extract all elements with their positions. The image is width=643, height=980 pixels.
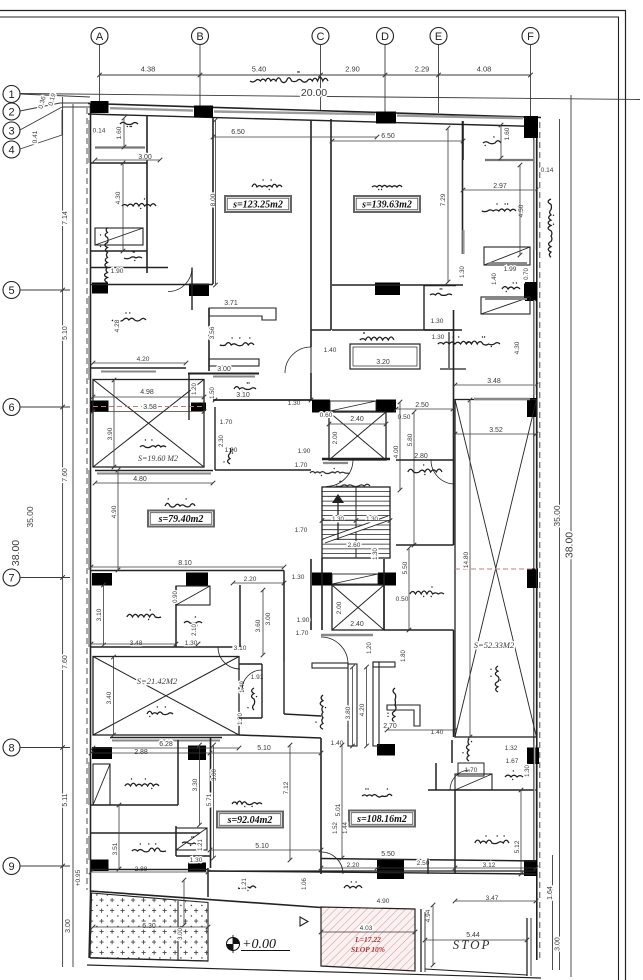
sill LW4 <box>110 737 222 739</box>
area S=21.42 <box>137 676 178 686</box>
wc wall h mid2 <box>239 717 262 719</box>
svg-text:S=21.42M2: S=21.42M2 <box>137 676 178 686</box>
svg-text:5.01: 5.01 <box>335 803 342 816</box>
grid bubble 5 <box>3 282 20 299</box>
dim 1.30 BR <box>525 765 531 777</box>
svg-text:1.70: 1.70 <box>296 630 309 637</box>
window sill left wall <box>88 470 90 570</box>
grid bubble C <box>312 28 329 45</box>
svg-text:5.50: 5.50 <box>381 851 395 858</box>
column C6 <box>189 284 209 297</box>
terrace top wall inner <box>208 870 536 872</box>
svg-text:1.20: 1.20 <box>192 383 198 395</box>
kitchen counter K2 inner <box>353 347 417 366</box>
window sill right wall <box>534 300 536 395</box>
dim 5.01 <box>335 803 342 816</box>
window sill left wall <box>88 590 90 647</box>
svg-text:E: E <box>435 31 442 43</box>
svg-text:1.60: 1.60 <box>504 127 511 140</box>
dim 5.44 <box>466 932 480 939</box>
dim 1.44 <box>343 822 349 834</box>
page frame right inner <box>618 17 620 980</box>
svg-text:2.40: 2.40 <box>350 621 364 628</box>
wardrobe BL <box>93 764 110 805</box>
column C25 <box>377 860 404 879</box>
dim 3.00 TL <box>138 154 152 161</box>
svg-text:2.88: 2.88 <box>134 749 148 756</box>
axis dashed red LW1 <box>93 406 204 408</box>
dim 3.56 <box>209 326 216 339</box>
svg-text:S=52.33M2: S=52.33M2 <box>474 640 515 650</box>
window sill top band <box>214 112 375 115</box>
label 4.38 <box>141 65 156 74</box>
serwis mid2 <box>247 688 257 710</box>
svg-text:1.44: 1.44 <box>343 822 349 834</box>
svg-text:7.60: 7.60 <box>62 655 69 669</box>
column C20 <box>188 746 206 761</box>
page frame right outer <box>625 11 627 980</box>
bedroom ML <box>127 609 161 620</box>
dim 0.90 <box>173 591 179 603</box>
hammam BR <box>505 770 523 780</box>
dim 3.00 K1 <box>217 366 231 373</box>
svg-text:4.94: 4.94 <box>425 909 432 922</box>
column C18 <box>527 569 538 589</box>
svg-text:1.30: 1.30 <box>525 765 531 777</box>
hammam TL <box>124 251 142 261</box>
dim 4.94 <box>425 909 432 922</box>
tub edge TR <box>489 262 527 264</box>
left wall lower slant <box>89 892 91 958</box>
wall below stairs L <box>310 559 312 630</box>
dim line 4.00 <box>398 400 403 493</box>
dim 1.30 stair b <box>366 517 378 523</box>
svg-text:1.30: 1.30 <box>190 857 203 864</box>
door TL <box>168 268 192 292</box>
grid line 438.5 <box>438 45 440 114</box>
svg-text:L=17.22: L=17.22 <box>354 935 381 944</box>
corridor wall K1 <box>188 373 259 375</box>
noorgir LW5 <box>490 666 501 692</box>
dim 2.40 elev2 <box>350 621 364 628</box>
svg-text:s=123.25m2: s=123.25m2 <box>232 200 283 211</box>
dim 7.29 <box>440 193 447 206</box>
street line 20.00 <box>20 94 640 100</box>
dim 0.41 <box>32 130 39 143</box>
svg-text:0.50: 0.50 <box>396 596 409 603</box>
svg-text:A: A <box>96 31 104 43</box>
left dim chain inner <box>72 104 74 967</box>
dim 1.70 hall <box>220 419 233 426</box>
svg-text:1.64: 1.64 <box>547 886 554 900</box>
svg-text:3.20: 3.20 <box>376 359 390 366</box>
wall midR v <box>453 399 455 545</box>
hammam TR <box>502 282 520 292</box>
grid bubble 9 <box>3 858 20 875</box>
top wall inner <box>88 114 536 127</box>
window sill left wall <box>88 836 90 860</box>
wall row5 right <box>332 284 463 286</box>
svg-text:7.60: 7.60 <box>62 468 69 482</box>
dim 38.00 left <box>10 540 22 566</box>
grid bubble 3 <box>3 122 20 139</box>
svg-text:4.20: 4.20 <box>137 356 150 363</box>
dim line 2.70 <box>385 728 458 733</box>
svg-text:1.30: 1.30 <box>431 318 444 325</box>
area box 123.25 <box>225 196 291 212</box>
grid bubble 7 <box>3 569 20 586</box>
column C23 <box>91 860 109 872</box>
svg-text:8.00: 8.00 <box>210 193 217 206</box>
wall BR h1 <box>428 789 536 791</box>
terrace sill TL <box>95 146 145 148</box>
dim 3.10 mid <box>236 392 250 399</box>
column C21 <box>377 744 395 756</box>
dim line 4.03 <box>319 930 418 935</box>
svg-text:4.50: 4.50 <box>518 204 525 217</box>
top wall outer <box>88 104 541 118</box>
dim 1.49 <box>240 681 246 693</box>
svg-text:38.00: 38.00 <box>10 540 22 566</box>
svg-text:1.90: 1.90 <box>111 268 124 275</box>
dim 1.30 stair c <box>373 548 379 560</box>
dim 2.70 <box>383 723 397 730</box>
dim 3.51 <box>112 842 119 855</box>
dim line 3.00 hatch <box>182 878 187 928</box>
dim 2.50 BR <box>417 860 430 867</box>
svg-text:0.70: 0.70 <box>524 268 530 280</box>
dim 4.30 R <box>514 341 521 354</box>
wall ML bedroom bottom <box>91 646 240 648</box>
kitchen K1 lower counter <box>209 359 259 366</box>
svg-text:4: 4 <box>8 144 14 156</box>
svg-text:35.00: 35.00 <box>25 506 35 528</box>
dim 1.30 mid <box>292 574 305 581</box>
dim 2.40 elev <box>350 416 364 423</box>
dim 3.00 right <box>555 937 562 951</box>
ramp <box>321 907 415 971</box>
leader line <box>20 405 70 410</box>
svg-text:1: 1 <box>8 89 14 101</box>
dim 3.60 <box>255 619 262 632</box>
svg-text:1.99: 1.99 <box>504 266 517 273</box>
dim line 3.30 <box>197 743 202 828</box>
dim 2.88 c <box>135 866 148 873</box>
dim 1.99 <box>504 266 517 273</box>
dim 1.21 <box>198 839 204 851</box>
area S=19.60 <box>138 454 178 463</box>
bathtub TR2 <box>481 297 530 314</box>
window sill left wall <box>88 120 90 163</box>
column C2 <box>194 106 213 118</box>
bedroom TL <box>122 198 156 209</box>
dim line 3.48 ML <box>89 642 201 647</box>
hammam ML <box>184 616 202 626</box>
dim line 3.90 <box>112 378 117 470</box>
bedroom TR <box>482 203 516 211</box>
bedroom midR2 <box>410 586 444 597</box>
svg-text:4.90: 4.90 <box>377 898 390 905</box>
shaft bottom <box>311 329 331 331</box>
svg-text:5.10: 5.10 <box>62 326 69 340</box>
dim 2.50 R <box>415 402 429 409</box>
dim 5.11 <box>62 793 69 806</box>
svg-text:14.80: 14.80 <box>463 551 470 568</box>
kitchen counter K2 <box>350 344 420 369</box>
terrace dotted hatch <box>90 893 208 961</box>
dim 0.14 TL <box>93 128 106 135</box>
svg-text:1.90: 1.90 <box>298 448 311 455</box>
wall below stairs R <box>383 559 385 630</box>
dim 0.36 <box>38 95 48 109</box>
dim 2.88 a <box>134 749 148 756</box>
hall wall v <box>214 407 216 470</box>
grid bubble D <box>377 28 394 45</box>
svg-text:1.20: 1.20 <box>367 642 373 654</box>
svg-text:S=19.60 M2: S=19.60 M2 <box>138 454 178 463</box>
svg-text:+0.00: +0.00 <box>242 937 276 952</box>
tag 1.70 <box>458 763 484 776</box>
hall bottom wall <box>215 469 311 471</box>
dim line 5.12 <box>519 788 524 877</box>
svg-text:1.30: 1.30 <box>373 548 379 560</box>
svg-text:3.48: 3.48 <box>130 640 143 647</box>
dim 8.00 <box>210 193 217 206</box>
dim line 7.29 <box>446 126 451 285</box>
dim line 4.20 <box>364 665 369 749</box>
dim line 7.12 <box>288 743 293 863</box>
dim 1.64 <box>547 886 554 900</box>
dim 1.30 ML <box>185 640 198 647</box>
column C16 <box>312 573 332 586</box>
svg-text:4.03: 4.03 <box>360 925 373 932</box>
dim 1.40 K4 <box>331 740 344 747</box>
grid bubble 8 <box>3 739 20 756</box>
dim 1.70 mid <box>296 630 309 637</box>
area box 139.63 <box>354 196 420 212</box>
svg-text:1.50: 1.50 <box>210 387 216 399</box>
dim 2.00 elev <box>332 431 339 444</box>
dim 3.47 <box>486 895 499 902</box>
sill K1 <box>213 376 255 378</box>
dim line 2.97 <box>461 188 539 193</box>
serwis BR <box>462 739 472 761</box>
dim 5.50 mid <box>402 561 409 574</box>
taras B1 <box>238 881 256 891</box>
svg-text:1.32: 1.32 <box>505 745 518 752</box>
svg-text:3.48: 3.48 <box>487 378 501 385</box>
dim line bottom BR <box>319 866 539 871</box>
svg-text:5.10: 5.10 <box>255 843 269 850</box>
dim 5.80 <box>407 433 414 446</box>
dim 1.91 <box>251 674 264 681</box>
svg-text:C: C <box>317 31 325 43</box>
wall BR v3 <box>427 859 429 875</box>
dim 0.50 <box>398 414 411 421</box>
wall BR v1b <box>451 740 453 763</box>
dim 3.10 ML <box>96 608 103 621</box>
dim 3.90 <box>107 427 114 440</box>
svg-text:4.20: 4.20 <box>359 703 366 716</box>
column C9 <box>91 401 109 413</box>
kitchen counter K4 <box>312 663 357 746</box>
svg-text:9: 9 <box>8 861 14 873</box>
dim 5.71 <box>206 793 213 806</box>
dim 1.30 TRb <box>432 334 445 341</box>
left dim chain outer <box>62 97 64 967</box>
street name (khiaban 8 metri) <box>250 71 328 82</box>
svg-text:8.10: 8.10 <box>178 560 192 567</box>
dim line 8.00 <box>213 118 218 288</box>
dim 0.95 <box>75 869 82 886</box>
svg-text:38.00: 38.00 <box>564 532 576 558</box>
dim 2.60 stair <box>348 542 361 549</box>
svg-text:3.60: 3.60 <box>255 619 262 632</box>
dim 0.60 <box>320 412 333 419</box>
dim 1.40 TR <box>492 273 498 285</box>
column C1 <box>91 101 109 113</box>
leader line <box>20 288 70 293</box>
paziraei 2 <box>372 185 402 190</box>
svg-text:s=139.63m2: s=139.63m2 <box>361 200 412 211</box>
column C8 <box>524 284 537 300</box>
dim 3.80 <box>345 706 352 719</box>
noorgir LW4 <box>147 706 173 717</box>
dim 14.80 <box>463 551 470 568</box>
dim line 3.58 <box>91 409 207 414</box>
wall BR bottom <box>321 859 536 862</box>
grid bubble E <box>430 28 447 45</box>
wall terrace/bedroom TL <box>146 116 148 273</box>
corridor left wall <box>188 373 190 420</box>
svg-text:0.41: 0.41 <box>32 130 39 143</box>
paziraei BL <box>232 801 262 807</box>
svg-text:5.10: 5.10 <box>257 745 271 752</box>
wall TR v2 <box>462 121 464 160</box>
svg-text:1.30: 1.30 <box>332 517 344 523</box>
shaft right wall <box>330 119 332 330</box>
stair landing sill <box>323 462 348 464</box>
door hall mid <box>321 637 348 664</box>
svg-text:1.70: 1.70 <box>220 419 233 426</box>
svg-text:4.98: 4.98 <box>140 389 154 396</box>
svg-text:3.71: 3.71 <box>224 300 238 307</box>
svg-text:1.30: 1.30 <box>288 400 301 407</box>
leader line <box>20 864 70 869</box>
elevator shaft lower <box>332 585 384 630</box>
dim 3.71 <box>224 300 238 307</box>
dim 3.00 ML <box>265 612 272 625</box>
dim 4.80 <box>133 476 147 483</box>
dim line 6.50 L <box>211 135 380 140</box>
column C19 <box>92 747 112 759</box>
svg-text:3.10: 3.10 <box>96 608 103 621</box>
taras B2 <box>344 881 362 888</box>
dim line 5.10 b <box>208 848 324 853</box>
dim line 3.51 <box>117 803 122 872</box>
dim 3.40 <box>106 691 113 704</box>
stop area left wall <box>420 909 422 972</box>
svg-text:5.80: 5.80 <box>407 433 414 446</box>
dim 4.00 <box>393 445 400 458</box>
noorgir LW1 <box>140 439 166 447</box>
column C3 <box>376 112 396 124</box>
level marker +0.00 <box>227 935 291 953</box>
grid bubble 1 <box>3 86 20 103</box>
wall ML bottom <box>91 570 284 572</box>
dim 1.52 <box>333 822 339 834</box>
bath ML <box>176 586 210 605</box>
door shaft <box>285 347 311 373</box>
bedroom R mid <box>466 336 500 347</box>
window sill top band <box>397 116 523 119</box>
dim 6.50 L <box>231 129 245 136</box>
serwis TR <box>430 288 452 295</box>
terrace bottom wall <box>90 891 321 908</box>
dim line 4.94 <box>431 903 436 968</box>
dim 7.60 <box>62 655 69 669</box>
svg-text:6.50: 6.50 <box>231 129 245 136</box>
sill LW4 b <box>112 740 220 742</box>
wall midR mid <box>396 544 454 546</box>
wc wall TR v <box>423 286 425 331</box>
grid line 200 <box>199 45 201 108</box>
page frame top outer <box>0 10 626 12</box>
dim 1.06 <box>302 878 308 890</box>
svg-text:7.14: 7.14 <box>62 211 69 225</box>
dim 5.10 a <box>257 745 271 752</box>
svg-text:1.90: 1.90 <box>297 617 310 624</box>
dim 3.00 BL <box>212 769 218 781</box>
top dimension line <box>97 73 533 78</box>
dim line 2.88/5.10 <box>89 751 324 756</box>
sill LW5 top <box>474 398 530 400</box>
wall BR v1 <box>435 763 437 790</box>
svg-text:1.70: 1.70 <box>295 462 308 469</box>
column C13 <box>527 398 537 417</box>
svg-text:1.21: 1.21 <box>198 839 204 851</box>
ashpazkhane K1 <box>220 337 254 346</box>
grid line 385 <box>384 45 386 113</box>
dim 3.00 left <box>65 919 72 933</box>
wall BL b <box>91 832 200 834</box>
dim 2.97 <box>493 183 507 190</box>
light well 5 (S=52.33) <box>455 400 537 738</box>
stair note 2 <box>336 481 370 487</box>
svg-text:2.10: 2.10 <box>192 624 198 636</box>
paziraei 1 <box>252 179 282 190</box>
dim 4.20 <box>359 703 366 716</box>
svg-text:7: 7 <box>8 572 14 584</box>
svg-text:2.20: 2.20 <box>244 576 257 583</box>
wall TL b <box>91 250 147 252</box>
column C11 <box>312 400 330 413</box>
dim line stairs width <box>320 518 393 523</box>
svg-text:4.38: 4.38 <box>141 65 156 74</box>
column C27 <box>525 282 537 301</box>
svg-text:4.28: 4.28 <box>114 319 121 332</box>
door stairs <box>326 460 353 487</box>
column C14 <box>92 573 112 586</box>
left expansion joint note <box>100 228 108 283</box>
bathtub TL <box>95 228 143 245</box>
terrace top wall <box>208 871 536 874</box>
svg-text:5: 5 <box>8 285 14 297</box>
svg-text:0.60: 0.60 <box>320 412 333 419</box>
svg-text:s=108.16m2: s=108.16m2 <box>356 814 407 825</box>
page frame top inner <box>0 16 619 18</box>
taras TL <box>120 122 138 127</box>
